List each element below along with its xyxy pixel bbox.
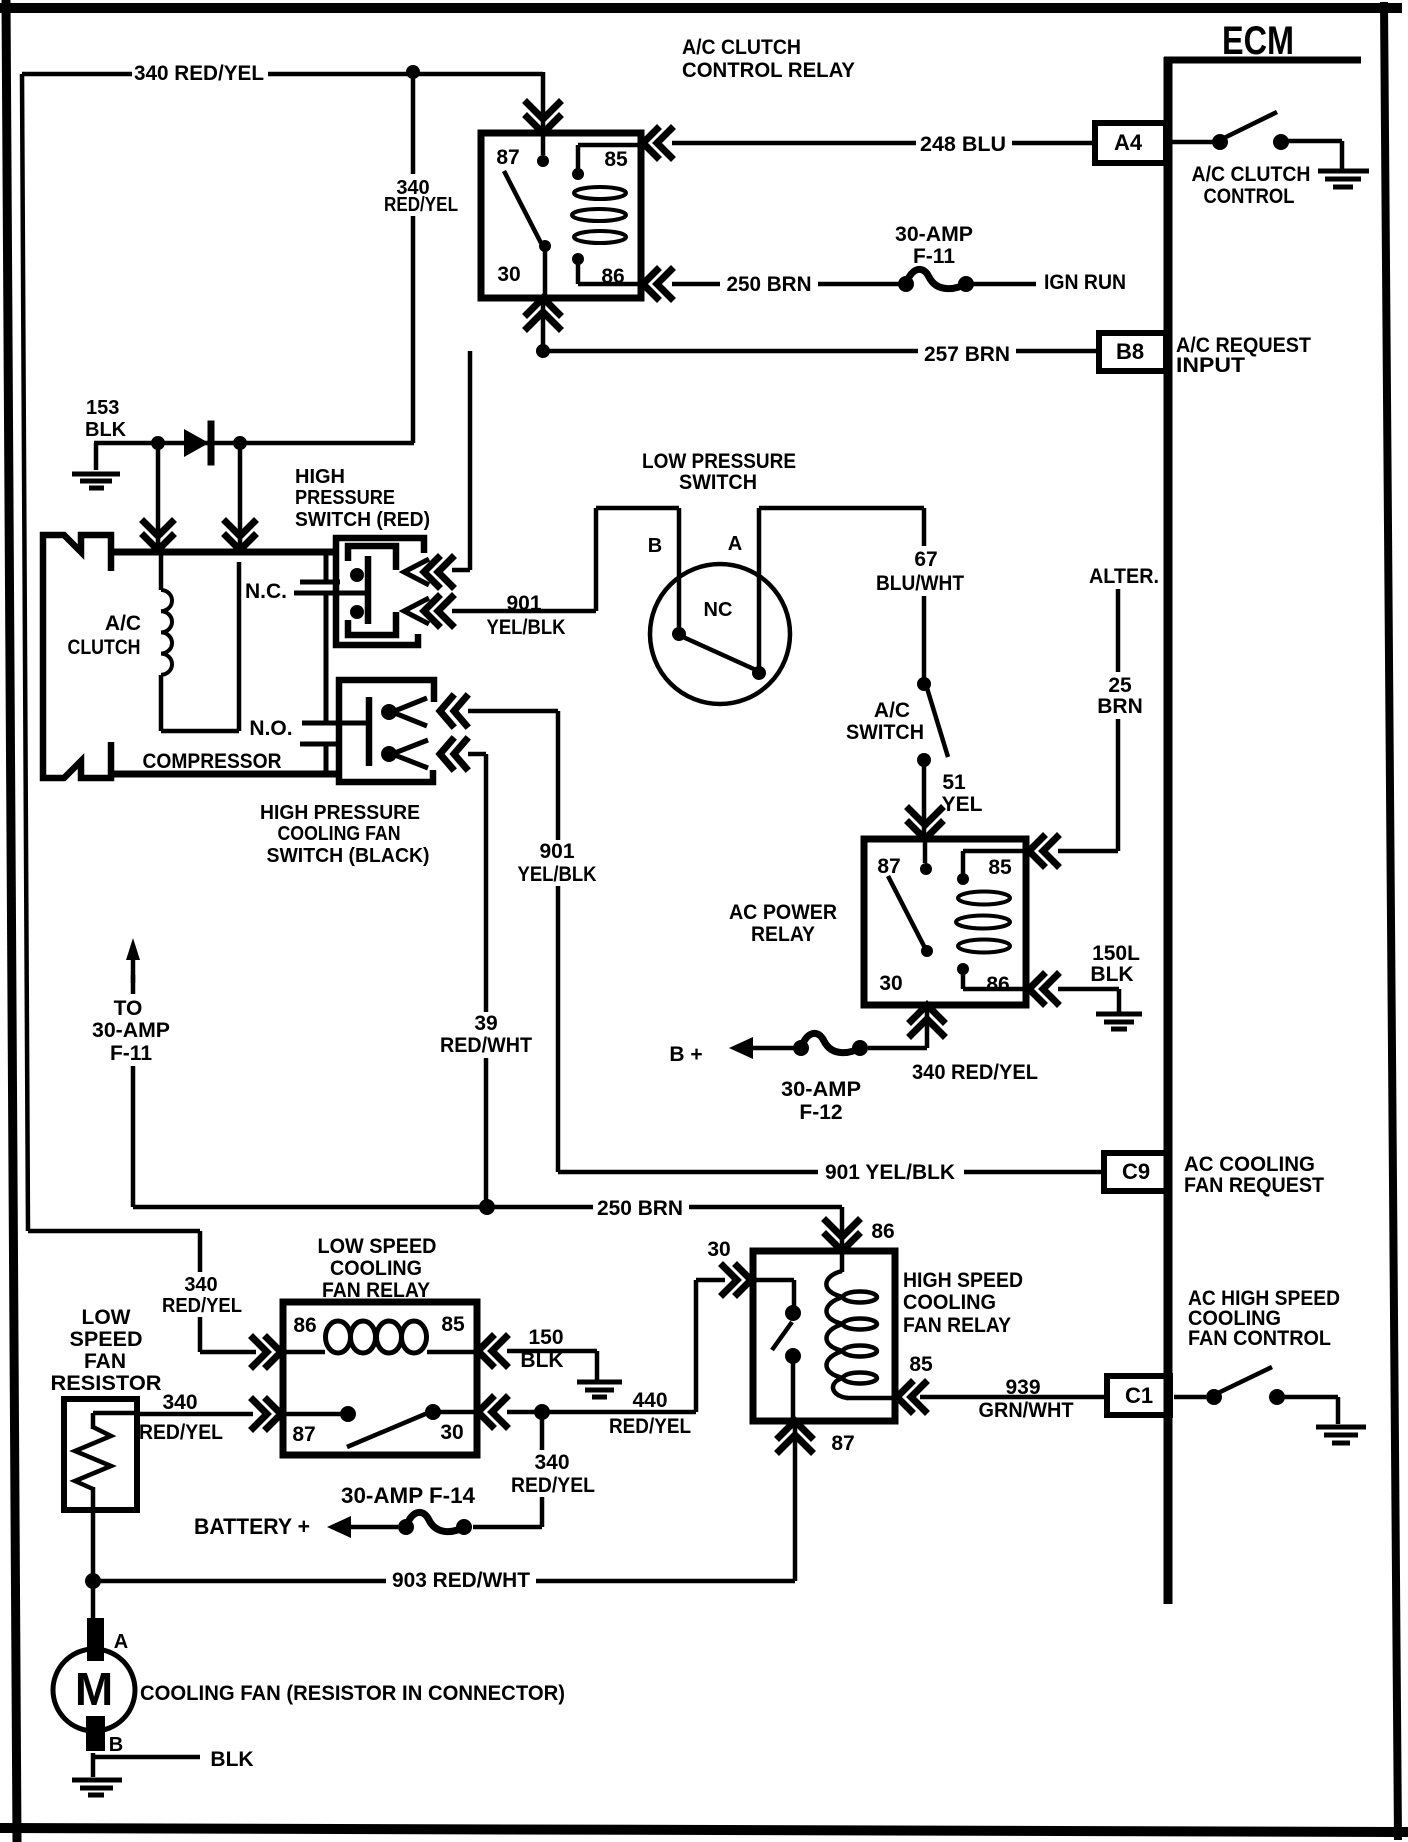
svg-text:250 BRN: 250 BRN — [597, 1197, 683, 1220]
svg-text:HIGH: HIGH — [295, 466, 345, 488]
svg-text:340: 340 — [162, 1391, 197, 1414]
svg-text:901 YEL/BLK: 901 YEL/BLK — [825, 1161, 955, 1184]
svg-text:TO: TO — [114, 997, 143, 1020]
svg-text:340: 340 — [184, 1274, 217, 1296]
svg-text:CONTROL RELAY: CONTROL RELAY — [682, 59, 855, 82]
svg-text:SWITCH (BLACK): SWITCH (BLACK) — [267, 845, 430, 867]
svg-text:RED/YEL: RED/YEL — [139, 1421, 223, 1444]
svg-text:86: 86 — [293, 1314, 316, 1337]
svg-text:250 BRN: 250 BRN — [727, 273, 812, 296]
svg-text:B: B — [109, 1734, 123, 1756]
svg-text:85: 85 — [909, 1353, 933, 1376]
svg-text:85: 85 — [441, 1313, 465, 1336]
svg-text:87: 87 — [831, 1432, 854, 1455]
svg-text:HIGH PRESSURE: HIGH PRESSURE — [260, 802, 420, 824]
svg-text:30: 30 — [497, 263, 520, 286]
svg-text:39: 39 — [474, 1012, 497, 1035]
svg-text:BLK: BLK — [1090, 963, 1133, 986]
svg-text:F-12: F-12 — [799, 1101, 842, 1124]
svg-text:30: 30 — [440, 1421, 463, 1444]
svg-text:AC POWER: AC POWER — [729, 901, 837, 924]
svg-text:A4: A4 — [1114, 130, 1143, 155]
svg-text:F-11: F-11 — [913, 245, 955, 268]
svg-text:C1: C1 — [1125, 1383, 1153, 1408]
svg-text:FAN CONTROL: FAN CONTROL — [1188, 1327, 1331, 1350]
svg-text:ECM: ECM — [1222, 19, 1294, 63]
svg-text:BRN: BRN — [1097, 695, 1143, 718]
svg-text:SWITCH: SWITCH — [846, 721, 924, 744]
svg-text:A/C CLUTCH: A/C CLUTCH — [682, 36, 801, 59]
svg-text:67: 67 — [914, 548, 937, 571]
svg-text:LOW PRESSURE: LOW PRESSURE — [642, 450, 796, 473]
svg-text:FAN RELAY: FAN RELAY — [903, 1314, 1011, 1337]
svg-text:B +: B + — [669, 1043, 702, 1066]
svg-text:86: 86 — [986, 973, 1009, 996]
svg-text:FAN RELAY: FAN RELAY — [322, 1279, 430, 1302]
svg-text:BLK: BLK — [520, 1349, 563, 1372]
svg-text:86: 86 — [871, 1220, 894, 1243]
svg-text:340 RED/YEL: 340 RED/YEL — [912, 1061, 1038, 1084]
svg-text:30-AMP: 30-AMP — [895, 223, 973, 246]
svg-text:C9: C9 — [1122, 1159, 1150, 1184]
svg-text:248 BLU: 248 BLU — [920, 133, 1006, 156]
svg-text:RELAY: RELAY — [751, 923, 815, 946]
svg-text:GRN/WHT: GRN/WHT — [979, 1399, 1074, 1422]
svg-text:HIGH SPEED: HIGH SPEED — [903, 1269, 1023, 1292]
svg-text:IGN RUN: IGN RUN — [1044, 271, 1126, 294]
svg-text:440: 440 — [632, 1389, 667, 1412]
svg-text:SPEED: SPEED — [70, 1328, 143, 1351]
svg-text:INPUT: INPUT — [1176, 354, 1245, 377]
svg-text:30: 30 — [707, 1238, 730, 1261]
svg-text:F-11: F-11 — [110, 1042, 152, 1065]
svg-text:BLK: BLK — [85, 419, 127, 441]
svg-text:COMPRESSOR: COMPRESSOR — [143, 750, 282, 773]
svg-text:903 RED/WHT: 903 RED/WHT — [392, 1569, 530, 1592]
svg-text:153: 153 — [86, 397, 119, 419]
svg-text:RED/YEL: RED/YEL — [384, 194, 458, 216]
svg-text:B: B — [648, 535, 662, 557]
svg-text:FAN REQUEST: FAN REQUEST — [1184, 1174, 1324, 1197]
svg-text:150L: 150L — [1092, 942, 1140, 965]
svg-text:N.C.: N.C. — [245, 580, 287, 603]
svg-text:A/C: A/C — [874, 699, 910, 722]
svg-text:YEL: YEL — [942, 793, 983, 816]
svg-text:BLK: BLK — [210, 1748, 253, 1771]
svg-text:PRESSURE: PRESSURE — [295, 487, 395, 509]
svg-text:AC COOLING: AC COOLING — [1184, 1153, 1315, 1176]
svg-text:M: M — [75, 1663, 113, 1715]
svg-text:A: A — [114, 1631, 128, 1653]
svg-text:RED/WHT: RED/WHT — [440, 1034, 532, 1057]
svg-text:87: 87 — [496, 146, 519, 169]
svg-text:25: 25 — [1108, 674, 1132, 697]
svg-text:LOW: LOW — [82, 1306, 131, 1329]
svg-text:51: 51 — [942, 771, 966, 794]
svg-text:RED/YEL: RED/YEL — [162, 1295, 242, 1317]
svg-text:YEL/BLK: YEL/BLK — [487, 616, 566, 639]
svg-text:BLU/WHT: BLU/WHT — [876, 572, 964, 595]
svg-text:257 BRN: 257 BRN — [924, 343, 1010, 366]
svg-text:RED/YEL: RED/YEL — [609, 1415, 691, 1438]
svg-text:87: 87 — [877, 855, 900, 878]
svg-text:CLUTCH: CLUTCH — [68, 636, 141, 659]
svg-text:901: 901 — [506, 592, 541, 615]
svg-text:RESISTOR: RESISTOR — [51, 1372, 162, 1395]
svg-text:COOLING: COOLING — [330, 1257, 422, 1280]
svg-text:NC: NC — [704, 599, 733, 621]
svg-text:SWITCH (RED): SWITCH (RED) — [295, 509, 430, 531]
svg-text:A/C CLUTCH: A/C CLUTCH — [1192, 163, 1311, 186]
svg-text:A/C: A/C — [105, 612, 141, 635]
svg-text:150: 150 — [528, 1326, 563, 1349]
svg-text:BATTERY +: BATTERY + — [194, 1514, 310, 1539]
svg-text:340 RED/YEL: 340 RED/YEL — [134, 62, 264, 85]
svg-text:30-AMP: 30-AMP — [781, 1078, 861, 1101]
svg-text:939: 939 — [1005, 1376, 1040, 1399]
svg-text:30: 30 — [879, 972, 902, 995]
svg-text:FAN: FAN — [84, 1350, 126, 1373]
svg-text:30-AMP F-14: 30-AMP F-14 — [341, 1483, 476, 1508]
svg-text:901: 901 — [539, 840, 574, 863]
svg-text:30-AMP: 30-AMP — [92, 1019, 170, 1042]
svg-text:85: 85 — [604, 148, 628, 171]
svg-text:B8: B8 — [1116, 339, 1144, 364]
svg-text:SWITCH: SWITCH — [679, 471, 757, 494]
svg-text:CONTROL: CONTROL — [1204, 185, 1295, 208]
svg-text:YEL/BLK: YEL/BLK — [518, 863, 597, 886]
svg-text:RED/YEL: RED/YEL — [511, 1474, 595, 1497]
svg-text:LOW SPEED: LOW SPEED — [318, 1235, 437, 1258]
svg-text:A: A — [728, 533, 742, 555]
svg-text:85: 85 — [988, 856, 1012, 879]
svg-text:COOLING FAN: COOLING FAN — [278, 823, 401, 845]
svg-text:N.O.: N.O. — [249, 717, 292, 740]
svg-text:ALTER.: ALTER. — [1089, 565, 1159, 588]
svg-text:COOLING FAN (RESISTOR IN CONN: COOLING FAN (RESISTOR IN CONNECTOR) — [140, 1682, 565, 1705]
svg-text:86: 86 — [601, 265, 624, 288]
svg-text:COOLING: COOLING — [903, 1291, 996, 1314]
svg-text:340: 340 — [534, 1451, 569, 1474]
svg-text:87: 87 — [292, 1423, 315, 1446]
